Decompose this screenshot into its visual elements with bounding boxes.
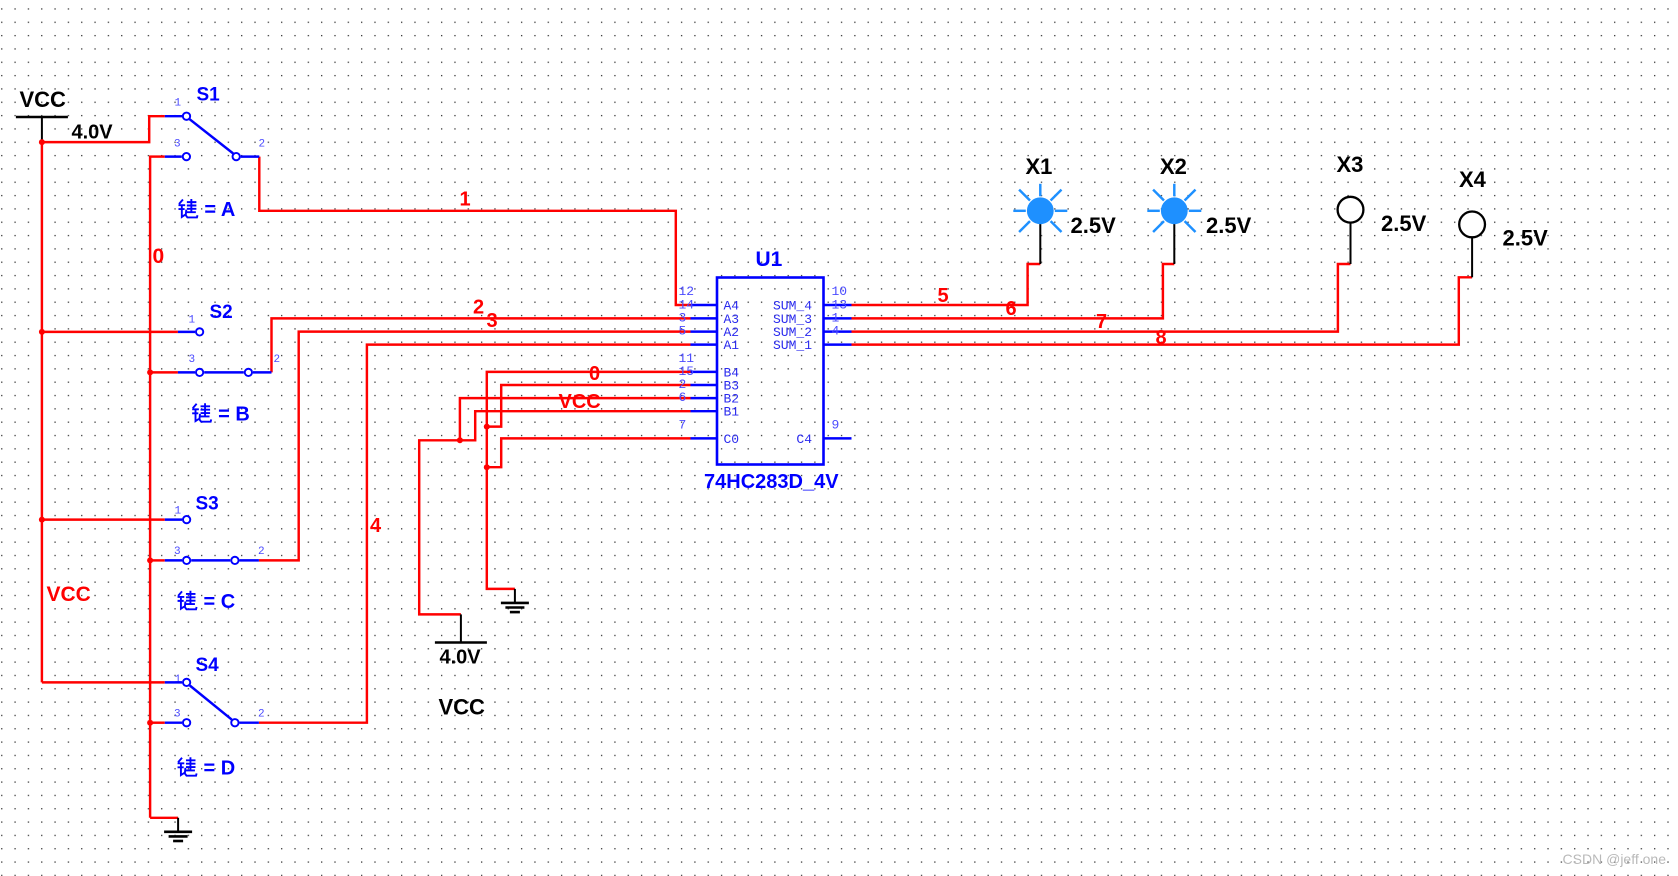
label key = A xyxy=(178,199,197,217)
op-amp U1 74HC283D_4V adder body xyxy=(717,278,824,465)
lamp X2 (lit) xyxy=(1173,224,1175,264)
wire VCC net: junction to S1 pin1 xyxy=(42,116,165,142)
svg-text:3: 3 xyxy=(174,709,181,721)
label key = D xyxy=(178,757,197,775)
wire VCC vertical to S2 pin1 xyxy=(41,142,43,332)
svg-text:C0: C0 xyxy=(724,432,740,447)
wire net 5/6: U1 SUM_4 to lamp X1 xyxy=(852,264,1041,305)
svg-text:1: 1 xyxy=(175,98,182,110)
wire net 0b: C0 branch xyxy=(487,438,691,467)
node VCC junction at S1 branch xyxy=(39,139,45,145)
svg-text:C4: C4 xyxy=(796,432,812,447)
pin A2 (pin 3) of U1 xyxy=(691,330,718,332)
wire VCC to S4 pin1 xyxy=(42,681,165,683)
svg-text:VCC: VCC xyxy=(439,695,486,720)
svg-text:2.5V: 2.5V xyxy=(1206,213,1252,238)
wire net 0b: U1 B4 to ground riser xyxy=(487,372,691,589)
node VCC junction at S2 branch xyxy=(39,329,45,335)
pin A4 (pin 12) of U1 xyxy=(691,304,718,306)
svg-text:VCC: VCC xyxy=(559,391,601,413)
pin C4 (pin 9) of U1 xyxy=(824,437,852,439)
wire net 0: S4 pin3 stub xyxy=(150,721,165,723)
svg-text:6: 6 xyxy=(679,390,687,405)
wire net 4: S4 pin2 to U1 A1 xyxy=(259,345,691,723)
svg-text:1: 1 xyxy=(189,315,196,327)
pin SUM_1 (pin 4) of U1 xyxy=(824,343,852,345)
svg-text:S1: S1 xyxy=(197,85,221,106)
svg-text:7: 7 xyxy=(679,417,687,432)
svg-text:1: 1 xyxy=(175,506,182,518)
node junction B2-B1 wire xyxy=(457,437,463,443)
svg-text:7: 7 xyxy=(1096,311,1107,333)
wire VCC2 net: U1 B1 branch xyxy=(419,411,690,614)
svg-text:4.0V: 4.0V xyxy=(440,647,482,669)
svg-text:6: 6 xyxy=(1006,298,1017,320)
svg-text:74HC283D_4V: 74HC283D_4V xyxy=(704,471,839,493)
svg-text:5: 5 xyxy=(679,324,687,339)
svg-text:X3: X3 xyxy=(1337,152,1364,177)
svg-text:4: 4 xyxy=(832,324,840,339)
svg-text:CSDN @jeff one: CSDN @jeff one xyxy=(1563,851,1667,867)
svg-text:U1: U1 xyxy=(756,248,783,271)
lamp X4 (off) xyxy=(1471,237,1473,277)
wire VCC vertical to S4 pin1 xyxy=(41,520,43,683)
svg-text:S4: S4 xyxy=(196,655,220,676)
svg-text:3: 3 xyxy=(189,354,196,366)
pin B2 (pin 2) of U1 xyxy=(691,397,718,399)
wire net 0 horizontal to ground xyxy=(150,817,178,819)
node VCC junction at S3 branch xyxy=(39,517,45,523)
svg-text:4: 4 xyxy=(370,515,382,537)
svg-text:= B: = B xyxy=(218,403,250,425)
svg-text:9: 9 xyxy=(832,417,840,432)
svg-text:0: 0 xyxy=(153,245,165,268)
label key = C xyxy=(178,591,197,609)
wire net 0: S1 pin3 stub xyxy=(150,155,165,157)
node junction B3-B4 riser xyxy=(484,424,490,430)
svg-text:1: 1 xyxy=(175,674,182,686)
svg-text:2: 2 xyxy=(274,354,281,366)
wire net 0 vertical S1.3-S2.3 xyxy=(149,156,151,373)
svg-text:5: 5 xyxy=(938,285,949,307)
svg-text:B1: B1 xyxy=(724,405,740,420)
node net0 junction at S2.3 xyxy=(147,369,153,375)
svg-text:VCC: VCC xyxy=(20,87,67,112)
pin SUM_4 (pin 10) of U1 xyxy=(824,304,852,306)
ground GND2 (middle) xyxy=(514,589,516,603)
svg-text:X2: X2 xyxy=(1160,154,1187,179)
wire net 0: S2 pin3 stub xyxy=(150,371,178,373)
svg-text:= C: = C xyxy=(204,591,236,613)
svg-text:A1: A1 xyxy=(724,338,740,353)
pin B3 (pin 15) of U1 xyxy=(691,384,718,386)
svg-text:2.5V: 2.5V xyxy=(1503,226,1549,251)
wire net 0: S3 pin3 stub xyxy=(150,559,165,561)
svg-text:0: 0 xyxy=(589,363,600,385)
svg-text:2.5V: 2.5V xyxy=(1381,211,1427,236)
svg-text:2: 2 xyxy=(258,546,265,558)
svg-text:3: 3 xyxy=(174,139,181,151)
svg-text:= D: = D xyxy=(204,757,236,779)
svg-text:X1: X1 xyxy=(1026,154,1053,179)
svg-text:S3: S3 xyxy=(196,494,219,515)
pin B4 (pin 11) of U1 xyxy=(691,371,718,373)
pin SUM_3 (pin 13) of U1 xyxy=(824,317,852,319)
wire net 2: S2 pin2 to U1 A3 xyxy=(272,318,691,372)
svg-text:= A: = A xyxy=(204,199,235,221)
pin A3 (pin 14) of U1 xyxy=(691,317,718,319)
wire net 7: U1 SUM_3 to lamp X2 xyxy=(852,264,1175,318)
pin B1 (pin 6) of U1 xyxy=(691,410,718,412)
wire VCC to S3 pin1 xyxy=(42,518,165,520)
pin A1 (pin 5) of U1 xyxy=(691,343,718,345)
label key = B xyxy=(192,403,211,421)
svg-text:2: 2 xyxy=(473,297,484,319)
wire net 0b: B3 branch xyxy=(487,385,691,427)
wire net 3: S3 pin2 to U1 A2 xyxy=(259,332,691,561)
svg-text:3: 3 xyxy=(487,310,498,332)
wire net 1: S1 pin2 to U1 A4 xyxy=(259,157,690,305)
svg-text:3: 3 xyxy=(174,546,181,558)
node net0 junction at S4.3 xyxy=(147,720,153,726)
wire net 0 vertical S3.3-S4.3 xyxy=(149,560,151,722)
power VCC V2 (4.0V) bottom-middle xyxy=(460,614,462,642)
node junction C0-B4 riser xyxy=(484,464,490,470)
svg-text:2: 2 xyxy=(258,709,265,721)
svg-text:VCC: VCC xyxy=(47,583,91,606)
wire VCC vertical to S3 pin1 xyxy=(41,332,43,520)
node net0 junction at S3.3 xyxy=(147,557,153,563)
svg-text:SUM_1: SUM_1 xyxy=(773,338,812,353)
lamp X3 (off) xyxy=(1350,223,1352,264)
wire net 0 vertical S2.3-S3.3 xyxy=(149,372,151,560)
wire net 9: U1 SUM_1 to lamp X4 xyxy=(852,277,1473,344)
wire VCC2 net: U1 B2 branch xyxy=(460,398,691,440)
svg-text:1: 1 xyxy=(460,189,471,211)
wire VCC to S2 pin1 xyxy=(42,331,178,333)
wire net 8: U1 SUM_2 to lamp X3 xyxy=(852,264,1351,332)
svg-text:2: 2 xyxy=(259,139,266,151)
svg-text:X4: X4 xyxy=(1459,167,1487,192)
wire net 0 vertical to ground xyxy=(149,723,151,818)
lamp X1 (lit) xyxy=(1039,224,1041,264)
svg-text:2.5V: 2.5V xyxy=(1071,213,1117,238)
svg-text:S2: S2 xyxy=(210,302,233,323)
pin C0 (pin 7) of U1 xyxy=(691,437,718,439)
ground GND1 (bottom-left) xyxy=(177,818,179,832)
svg-text:4.0V: 4.0V xyxy=(72,122,114,144)
pin SUM_2 (pin 1) of U1 xyxy=(824,330,852,332)
